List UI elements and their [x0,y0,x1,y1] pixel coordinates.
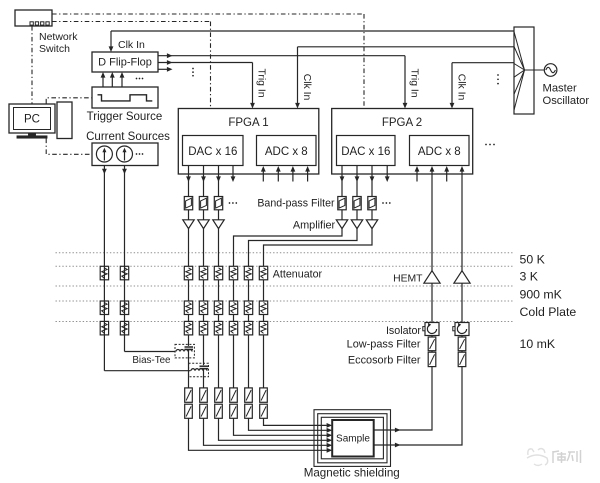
svg-text:3 K: 3 K [520,270,539,284]
svg-text:HEMT: HEMT [393,273,423,284]
svg-text:Current Sources: Current Sources [86,131,170,143]
svg-text:PC: PC [24,114,40,126]
svg-text:FPGA 1: FPGA 1 [228,117,268,129]
svg-text:Bias-Tee: Bias-Tee [132,355,171,366]
svg-text:FPGA 2: FPGA 2 [382,117,422,129]
svg-text:Attenuator: Attenuator [273,269,323,281]
svg-text:900 mK: 900 mK [520,288,563,302]
svg-text:Band-pass Filter: Band-pass Filter [257,197,335,209]
svg-text:Master: Master [543,82,577,94]
svg-text:Trig In: Trig In [409,68,420,97]
svg-text:Trig In: Trig In [256,68,267,97]
svg-text:Amplifier: Amplifier [293,219,336,231]
svg-text:Clk In: Clk In [118,39,145,51]
svg-text:Trigger Source: Trigger Source [87,111,163,123]
svg-text:Cold Plate: Cold Plate [520,305,577,319]
svg-text:Low-pass Filter: Low-pass Filter [347,339,421,351]
svg-text:Sample: Sample [336,434,370,445]
svg-text:ADC x 8: ADC x 8 [418,146,461,158]
svg-text:Clk In: Clk In [301,74,312,101]
svg-text:10 mK: 10 mK [520,337,556,351]
svg-text:D Flip-Flop: D Flip-Flop [98,56,152,68]
svg-text:Magnetic shielding: Magnetic shielding [304,466,400,479]
svg-text:Network: Network [39,31,78,43]
svg-text:Eccosorb Filter: Eccosorb Filter [348,354,421,366]
svg-text:Switch: Switch [39,43,70,55]
svg-text:Isolator: Isolator [386,325,421,337]
svg-text:50 K: 50 K [520,253,546,267]
svg-text:Clk In: Clk In [456,74,467,101]
svg-text:DAC x 16: DAC x 16 [188,146,237,158]
svg-text:Oscillator: Oscillator [543,95,590,107]
svg-text:ADC x 8: ADC x 8 [265,146,308,158]
svg-text:DAC x 16: DAC x 16 [341,146,390,158]
